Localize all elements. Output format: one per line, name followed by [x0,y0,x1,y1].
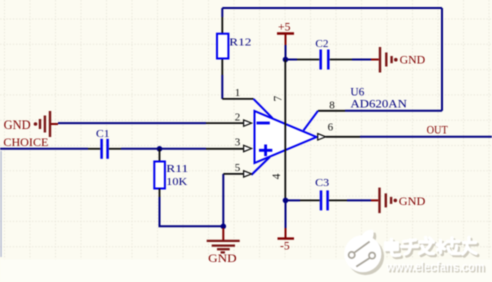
svg-text:4: 4 [271,173,283,179]
svg-text:GND: GND [4,118,31,132]
ground GND bottom [207,228,240,265]
ground GND top right [380,47,426,73]
svg-text:1: 1 [235,87,241,99]
wire pin5 vertical down to ground node [222,174,224,226]
op-amp U6 AD620AN triangle body [251,99,318,175]
non-inverting input plus mark [259,145,272,157]
wire feedback top horizontal (R12 top to pin8 loop) [222,7,442,9]
svg-text:2: 2 [235,112,241,124]
pin5 diagonal lead into body [251,157,269,175]
svg-text:CHOICE: CHOICE [3,135,48,149]
power -5 [278,228,295,252]
watermark brand glyphs [386,238,478,258]
svg-text:AD620AN: AD620AN [350,97,407,111]
svg-text:8: 8 [329,99,335,111]
pin 7 / pin 4 vertical supply pin line through body [284,60,286,201]
pin 5 input arrow [244,171,252,177]
wire pin4 down to -5 [285,200,287,228]
wire +5 down to node [285,45,287,60]
wire pin5 stub [223,173,244,175]
svg-text:R12: R12 [229,36,251,48]
watermark elecfans logo disc [344,230,384,275]
wire pin1 stub [222,98,253,100]
capacitor C2 [321,50,329,70]
ground GND middle right [380,188,426,214]
svg-text:GND: GND [400,53,426,67]
power +5 [277,22,294,45]
svg-text:+5: +5 [278,22,291,34]
svg-text:GND: GND [399,194,426,208]
pin 6 output arrow [318,134,326,140]
wire C1 right lead to pin 3 [109,148,121,150]
resistor R11 [154,162,165,189]
ground GND left (sideways) [4,111,58,137]
wire node to C2 left lead [286,59,298,61]
wire feedback right vertical [441,8,443,111]
wire sheet-edge fragment left [0,151,2,257]
wire R11 bottom lead [159,189,161,198]
wire ground to pin 2 [58,122,206,124]
wire pin8 horizontal [345,110,442,112]
wire node to C3 left lead [286,199,301,201]
wire node down to R11 top lead [159,149,161,162]
pin 3 input arrow [244,145,252,151]
wire R11 to ground node [160,197,224,226]
wire pin6 output to OUT [326,136,360,138]
node junction pin4/C3 [283,198,289,204]
pin1 diagonal lead into body [254,99,273,118]
capacitor C3 [321,190,328,210]
wire feedback left vertical down to R12 [221,8,223,17]
pin8 diagonal lead into body [304,111,319,131]
svg-text:6: 6 [328,121,334,133]
svg-text:C2: C2 [315,38,328,50]
svg-text:3: 3 [235,137,241,149]
wire pin8 stub [318,110,345,112]
svg-text:10K: 10K [166,176,187,188]
svg-text:5: 5 [235,162,241,174]
wire CHOICE to C1 left lead [0,148,88,150]
svg-text:OUT: OUT [427,125,448,137]
svg-text:R11: R11 [166,163,188,175]
node junction R11/pin5/ground [221,224,227,230]
svg-text:C3: C3 [315,177,330,189]
wire R12 bottom lead down to pin1 corner [221,59,223,76]
node junction +5/C2/pin7 [283,57,289,63]
svg-text:C1: C1 [96,128,110,140]
svg-text:-5: -5 [280,240,290,252]
svg-text:7: 7 [272,96,284,102]
wire C3 right lead to ground [329,199,347,201]
resistor R12 [217,34,228,59]
inverting input minus mark [257,122,270,125]
wire C2 right lead to ground [330,59,352,61]
pin 2 input arrow [244,120,252,126]
svg-text:www.elecfans.com: www.elecfans.com [386,259,485,274]
svg-text:GND: GND [208,251,237,265]
node junction pin3/R11 [157,146,163,152]
capacitor C1 [102,139,108,159]
